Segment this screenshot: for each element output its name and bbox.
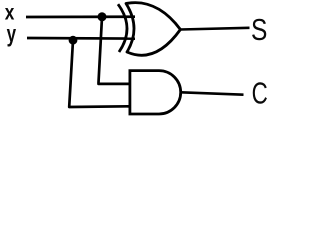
XOR gate U1 body bbox=[126, 3, 180, 56]
svg-text:y: y bbox=[7, 22, 17, 47]
wire y input bbox=[27, 37, 135, 40]
AND gate U2 body bbox=[130, 71, 181, 114]
junction dot on x wire bbox=[98, 12, 107, 21]
wire branch from y dot to AND lower input bbox=[69, 40, 131, 107]
wire branch from x dot to AND upper input bbox=[99, 17, 131, 84]
svg-text:C: C bbox=[252, 76, 268, 110]
svg-text:S: S bbox=[251, 12, 267, 46]
wire x input bbox=[26, 15, 135, 18]
XOR gate U1 input double arc bbox=[118, 4, 127, 52]
junction dot on y wire bbox=[69, 36, 78, 45]
wire XOR output to S bbox=[180, 28, 249, 30]
wire AND output to C bbox=[181, 92, 244, 94]
